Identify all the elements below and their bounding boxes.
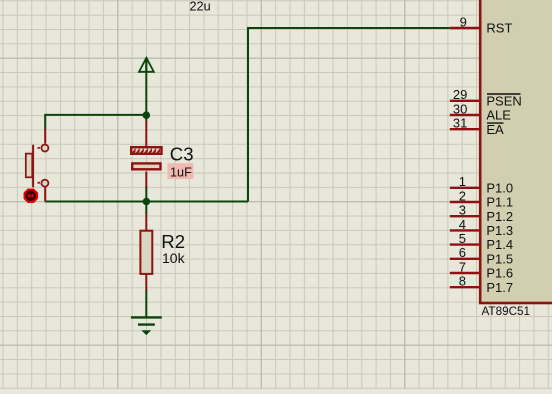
pin 29 PSEN xyxy=(450,87,522,108)
wire resistor bottom to ground xyxy=(145,290,147,318)
svg-text:PSEN: PSEN xyxy=(486,93,521,108)
pin 3 P1.2 xyxy=(450,203,513,224)
svg-text:31: 31 xyxy=(453,116,467,131)
svg-text:22u: 22u xyxy=(190,0,211,14)
svg-text:C3: C3 xyxy=(170,144,194,165)
svg-text:ALE: ALE xyxy=(486,108,511,123)
svg-text:P1.5: P1.5 xyxy=(486,251,513,266)
svg-text:AT89C51: AT89C51 xyxy=(482,305,531,318)
wire reset node horizontal: switch to vertical wire xyxy=(45,201,248,203)
label 10k xyxy=(162,250,186,266)
label AT89C51 xyxy=(482,305,531,318)
capacitor C3 positive hatched plate xyxy=(131,147,161,154)
wire capacitor bottom to junction to resistor xyxy=(145,187,147,215)
svg-text:P1.1: P1.1 xyxy=(486,195,513,210)
switch push-button top pin xyxy=(44,129,46,144)
svg-text:RST: RST xyxy=(486,21,512,36)
svg-text:10k: 10k xyxy=(162,250,186,266)
switch bottom contact circle xyxy=(38,180,49,187)
svg-text:8: 8 xyxy=(459,274,466,289)
resistor R2 bottom pin xyxy=(145,274,147,291)
svg-text:6: 6 xyxy=(459,245,466,260)
label R2 xyxy=(161,231,185,252)
svg-text:5: 5 xyxy=(459,231,466,246)
pin 4 P1.3 xyxy=(450,217,513,238)
switch bottom pin xyxy=(44,187,46,201)
svg-text:2: 2 xyxy=(459,188,466,203)
node junction at power/switch tee xyxy=(143,111,151,119)
wire RST net: pin9 to top corner and down to reset node xyxy=(248,28,450,202)
pin 2 P1.1 xyxy=(450,188,513,209)
wire switch top vertical drop xyxy=(44,114,46,130)
chip U1 AT89C51 body xyxy=(480,0,552,303)
power symbol VCC arrow xyxy=(139,58,154,73)
resistor R2 top pin xyxy=(145,214,147,232)
svg-text:P1.0: P1.0 xyxy=(486,180,513,195)
pin 6 P1.5 xyxy=(450,245,513,266)
capacitor C3 bottom pin xyxy=(145,172,147,188)
svg-text:7: 7 xyxy=(459,259,466,274)
label 22u xyxy=(190,0,211,14)
capacitor C3 top pin xyxy=(145,121,147,147)
svg-text:EA: EA xyxy=(486,122,504,137)
svg-text:29: 29 xyxy=(453,87,467,102)
pin 31 EA xyxy=(450,116,504,137)
svg-text:9: 9 xyxy=(460,14,467,29)
wire power stem vertical xyxy=(145,58,147,122)
pin 5 P1.4 xyxy=(450,231,513,252)
svg-text:30: 30 xyxy=(453,101,467,116)
pin 9 RST xyxy=(450,14,513,35)
label 1uF highlighted xyxy=(167,163,193,179)
capacitor C3 bottom plate xyxy=(132,163,160,169)
pin 7 P1.6 xyxy=(450,259,513,280)
svg-text:1uF: 1uF xyxy=(170,165,192,179)
svg-text:4: 4 xyxy=(459,217,466,232)
svg-text:P1.2: P1.2 xyxy=(486,209,513,224)
svg-text:R2: R2 xyxy=(161,231,185,252)
label C3 xyxy=(170,144,194,165)
svg-text:P1.4: P1.4 xyxy=(486,237,513,252)
svg-text:P1.3: P1.3 xyxy=(486,223,513,238)
ground symbol xyxy=(131,317,162,334)
resistor R2 body xyxy=(140,231,152,274)
pin 8 P1.7 xyxy=(450,274,513,295)
svg-text:P1.6: P1.6 xyxy=(486,266,513,281)
switch actuator bar xyxy=(32,145,34,188)
switch button body xyxy=(26,154,32,178)
pin 30 ALE xyxy=(450,101,512,122)
pin 1 P1.0 xyxy=(450,174,513,195)
node junction at reset tee xyxy=(143,198,151,206)
svg-text:3: 3 xyxy=(459,203,466,218)
svg-text:P1.7: P1.7 xyxy=(486,280,513,295)
origin marker red octagon on switch xyxy=(25,190,37,202)
svg-text:1: 1 xyxy=(459,174,466,189)
switch top contact circle xyxy=(38,145,49,152)
wire VCC node horizontal: switch top to power stem xyxy=(45,114,146,116)
